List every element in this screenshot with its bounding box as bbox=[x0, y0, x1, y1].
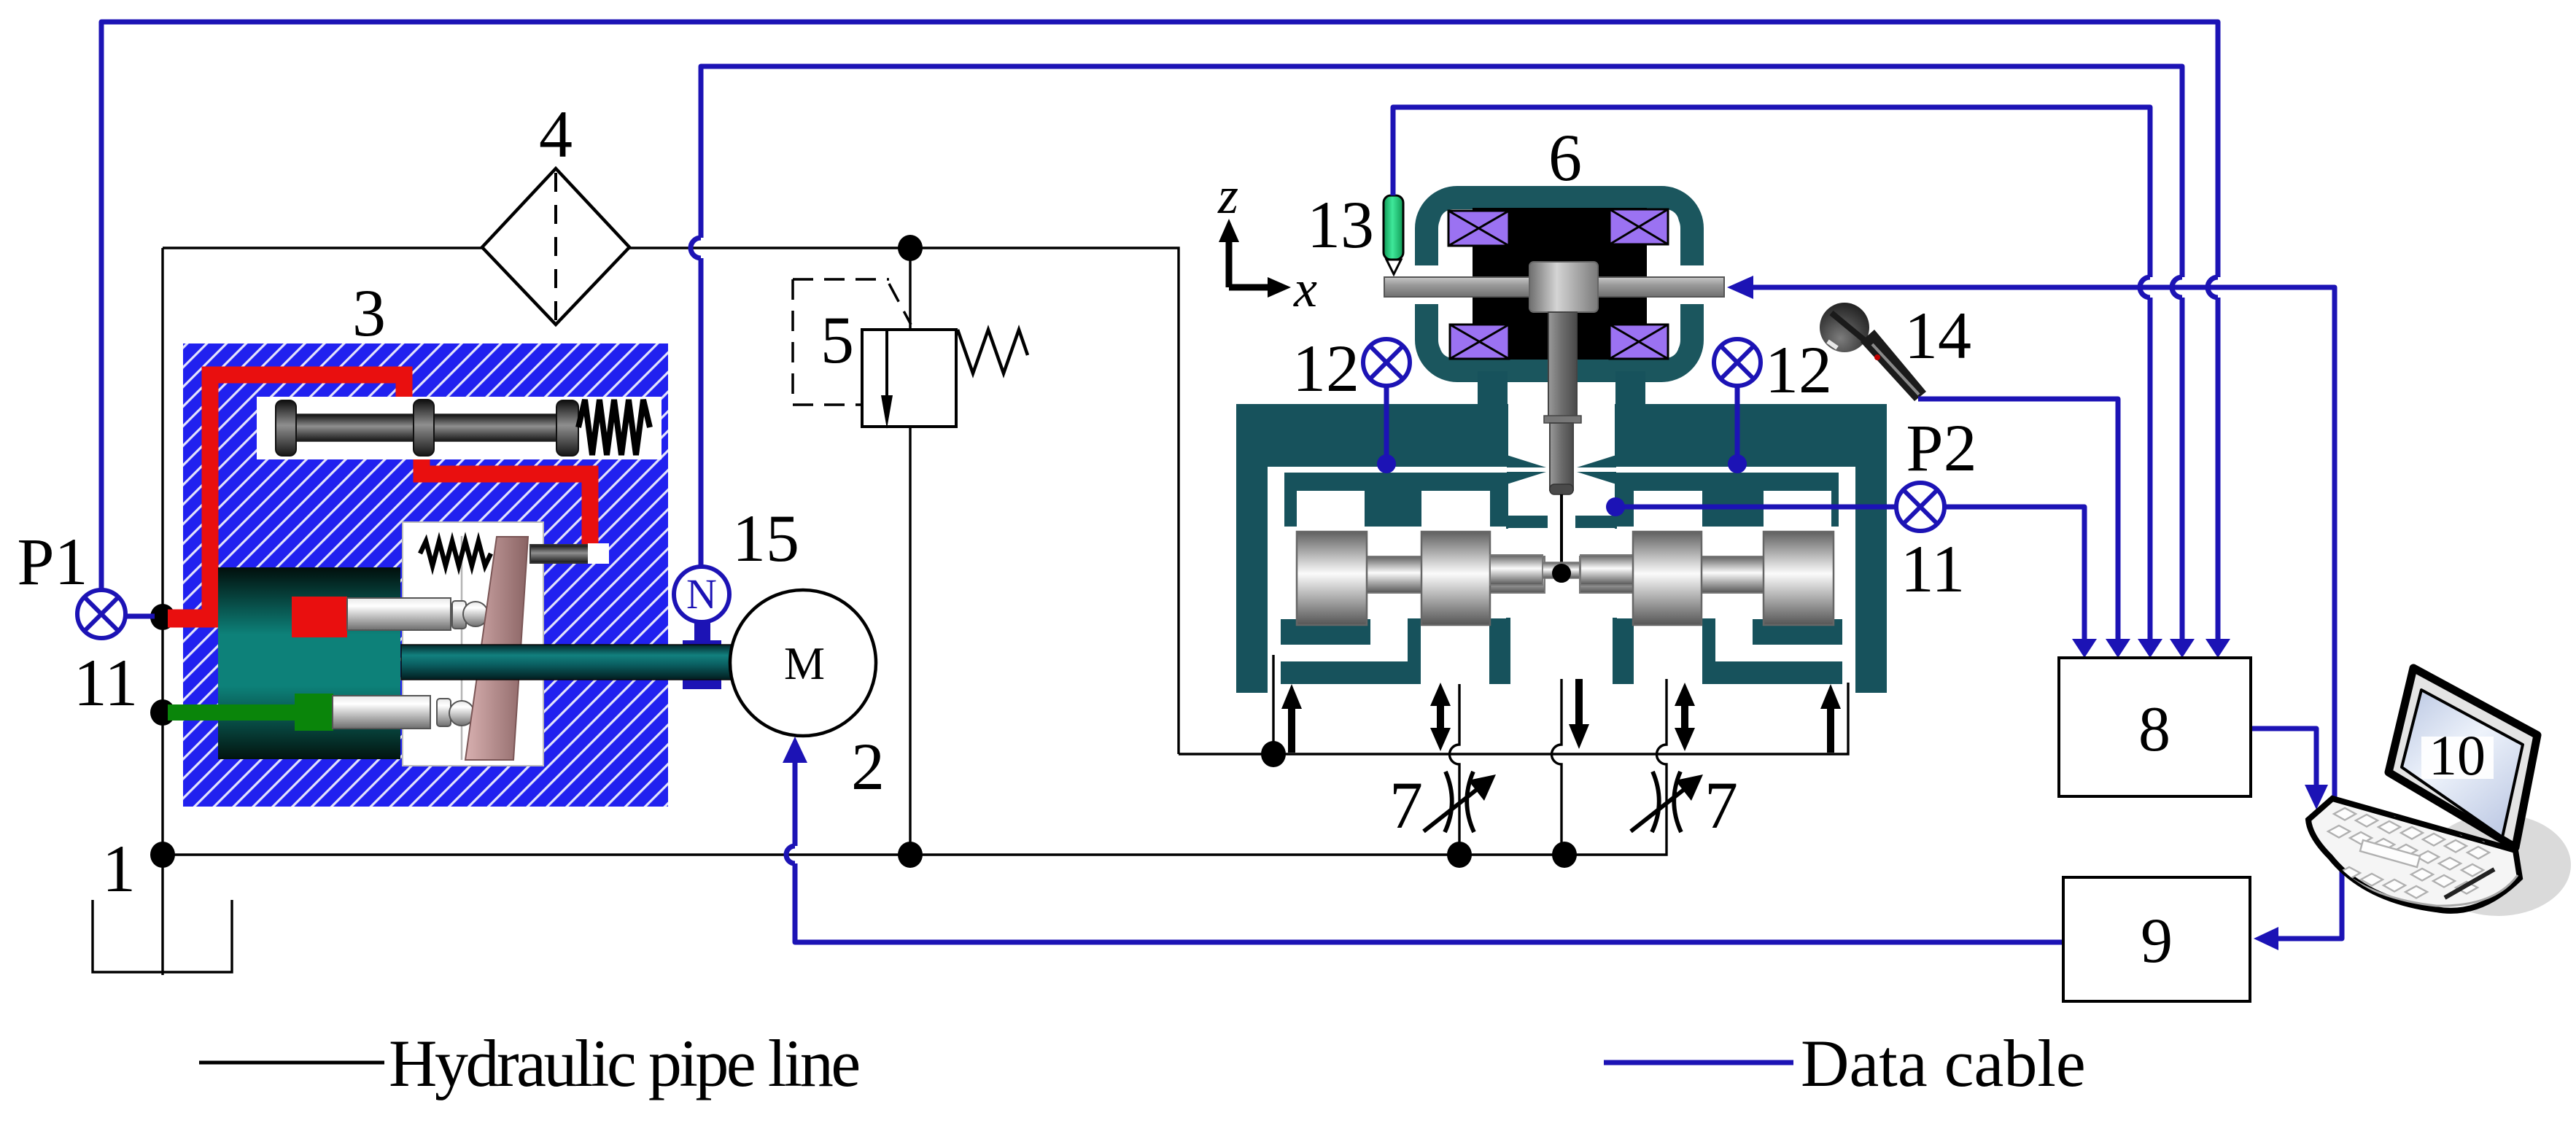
sensor gap line right bbox=[1616, 470, 1842, 537]
housing beak right lower bbox=[1577, 472, 1616, 484]
sensor P2 bbox=[1896, 483, 1944, 531]
housing right pad B bbox=[1715, 661, 1842, 684]
svg-text:z: z bbox=[1217, 166, 1238, 225]
coupling pedestal bbox=[694, 621, 710, 643]
laptop shadow bbox=[2425, 814, 2571, 916]
hop arc cable N bbox=[2172, 277, 2182, 298]
pump 3 control rod white end bbox=[588, 543, 609, 564]
housing left center step bbox=[1508, 516, 1548, 528]
node: relief branch top junction bbox=[898, 235, 923, 261]
valve 7 right arcs bbox=[1652, 772, 1681, 832]
housing beak left upper bbox=[1507, 455, 1546, 467]
pump 3 green piston block bbox=[295, 694, 333, 731]
pump 3 red rod balljoint bbox=[452, 601, 466, 629]
laptop keys bbox=[2328, 791, 2495, 898]
wire: valve7-left line with hop bbox=[1450, 684, 1459, 855]
svg-text:8: 8 bbox=[2138, 694, 2170, 765]
pump 3 swash plate bbox=[465, 537, 528, 760]
wire: relief valve branch upper bbox=[909, 248, 911, 330]
laptop lid bbox=[2389, 668, 2537, 847]
hop arc cable 13 bbox=[2140, 277, 2150, 298]
cable sensor12 left bbox=[1384, 386, 1389, 459]
svg-text:13: 13 bbox=[1307, 187, 1374, 262]
pump 3 red pipe lower bbox=[422, 459, 590, 551]
drive shaft bbox=[401, 645, 733, 680]
bearing coil top-left bbox=[1448, 211, 1509, 246]
wire: supply from pump vertical to filter bbox=[163, 246, 482, 249]
housing right outer bar bbox=[1855, 404, 1887, 693]
svg-text:7: 7 bbox=[1389, 768, 1423, 842]
cable P1 to box8 bbox=[101, 22, 2218, 639]
arrow into motor bbox=[783, 737, 807, 763]
svg-text:12: 12 bbox=[1292, 331, 1359, 405]
roller pocket right bbox=[1617, 527, 1855, 618]
spindle shaft narrow bbox=[1550, 423, 1573, 490]
sensor 12 right bbox=[1714, 339, 1761, 386]
housing beak left lower bbox=[1507, 472, 1546, 484]
housing pocket A left bbox=[1297, 491, 1365, 529]
hop arc cable N over pipe bbox=[691, 238, 701, 258]
housing pocket A right bbox=[1764, 491, 1831, 529]
pump 3 green rod balljoint bbox=[437, 699, 451, 726]
svg-text:P2: P2 bbox=[1906, 411, 1976, 485]
housing left outer bar bbox=[1236, 404, 1268, 693]
probe line bbox=[1560, 494, 1563, 573]
wire: bottom return line bbox=[163, 829, 1667, 855]
box 9 bbox=[2063, 877, 2250, 1001]
wire: relief valve branch lower bbox=[909, 427, 911, 855]
arrows into box 8 bbox=[2072, 639, 2097, 658]
pump 3 control rod bbox=[530, 545, 590, 563]
svg-text:3: 3 bbox=[352, 276, 386, 350]
node: pump pressure port junction bbox=[150, 604, 175, 630]
spindle shaft wide bbox=[1548, 312, 1577, 419]
housing right pad column outer bbox=[1613, 618, 1634, 684]
housing right connector bbox=[1615, 371, 1645, 415]
housing left connector bbox=[1478, 371, 1508, 415]
coupling collar bottom bbox=[683, 679, 721, 689]
laptop front skirt curve bbox=[2312, 837, 2518, 906]
svg-text:11: 11 bbox=[74, 645, 139, 720]
roller right 1 bbox=[1633, 532, 1702, 625]
pump 3 red pipe upper bbox=[210, 375, 404, 617]
bearing coil top-right bbox=[1610, 209, 1668, 244]
pump 3 green port pipe bbox=[168, 704, 295, 721]
housing left mid band bbox=[1281, 472, 1508, 529]
node: valve7-left bottom junction bbox=[1447, 842, 1472, 868]
valve 7 left arrow bbox=[1424, 785, 1482, 831]
relief valve 5 spring bbox=[958, 330, 1028, 373]
svg-text:10: 10 bbox=[2429, 723, 2486, 787]
filter 4 element dashed bbox=[554, 173, 557, 321]
svg-text:9: 9 bbox=[2141, 906, 2173, 976]
cable D laptop to shaft bbox=[1751, 287, 2335, 799]
pump 3 top piston rod 1 bbox=[292, 414, 417, 441]
head 6 hub bbox=[1529, 262, 1598, 312]
sensor 15 circle bbox=[674, 567, 729, 622]
roller right 2 bbox=[1764, 532, 1834, 625]
pump 3 top piston rod 2 bbox=[430, 414, 561, 441]
motor M circle bbox=[730, 590, 876, 736]
legend hydraulic line bbox=[199, 1061, 384, 1065]
center narrow left bbox=[1490, 555, 1543, 585]
head 6 frame ring bbox=[1427, 198, 1692, 370]
probe contact dot bbox=[1552, 564, 1571, 583]
roller shaft right bbox=[1580, 556, 1828, 593]
pump 3 top spring bbox=[578, 400, 650, 455]
pump 3 top cylinder white cavity bbox=[257, 397, 662, 459]
pump 3 top piston flange left bbox=[276, 400, 296, 456]
housing left pad column bbox=[1408, 618, 1421, 684]
housing left top band bbox=[1236, 404, 1508, 467]
roller shaft left bbox=[1297, 556, 1545, 593]
bearing coil bottom-left bbox=[1450, 325, 1509, 359]
housing right top band bbox=[1615, 404, 1887, 467]
cable 13 to box8 bbox=[1393, 107, 2150, 639]
mic 14 head bbox=[1820, 303, 1869, 352]
pump 3 top piston flange right bbox=[556, 400, 578, 456]
sensor 13 tip bbox=[1386, 260, 1401, 274]
arrow into shaft bbox=[1727, 276, 1753, 299]
pump 3 red piston rod bbox=[347, 598, 451, 630]
laptop body bbox=[2308, 799, 2520, 911]
laptop hinge slot bbox=[2445, 869, 2494, 898]
wire: valve7-right line with hop bbox=[1657, 679, 1667, 829]
pad slot right bbox=[1715, 645, 1845, 661]
sensor gap line left bbox=[1281, 470, 1508, 537]
node: pump suction port junction bbox=[150, 699, 175, 726]
cable box9 to motor bbox=[795, 757, 2063, 942]
sensor 12 left bbox=[1363, 339, 1410, 386]
blue arrowheads bbox=[783, 276, 2328, 950]
svg-text:5: 5 bbox=[820, 303, 854, 377]
legend data cable bbox=[1604, 1060, 1793, 1065]
spindle tip cap bbox=[1550, 484, 1573, 494]
spacebar bbox=[2360, 840, 2420, 867]
svg-text:12: 12 bbox=[1765, 333, 1832, 407]
svg-text:15: 15 bbox=[732, 501, 799, 575]
filter 4 body bbox=[482, 168, 629, 325]
cable P1 stub bbox=[125, 614, 155, 619]
arrow double (right pocket) bbox=[1675, 683, 1695, 751]
svg-text:Hydraulic pipe line: Hydraulic pipe line bbox=[389, 1026, 858, 1100]
head 6 inner white bbox=[1440, 209, 1679, 358]
roller left 2 bbox=[1421, 532, 1490, 625]
svg-text:6: 6 bbox=[1548, 120, 1582, 195]
housing right center step bbox=[1575, 516, 1615, 528]
node: relief branch bottom junction bbox=[898, 842, 923, 868]
node: collector left junction bbox=[1261, 741, 1286, 767]
roller pocket left bbox=[1268, 527, 1506, 618]
housing left pad B bbox=[1281, 661, 1408, 684]
pump 3 hatched block bbox=[183, 343, 668, 807]
pump 3 top piston flange mid bbox=[414, 400, 434, 456]
tank 1 bbox=[93, 900, 232, 972]
hop arc cable P1 bbox=[2208, 277, 2218, 298]
housing left pad column outer bbox=[1489, 618, 1510, 684]
head 6 shaft white cutouts bbox=[1404, 265, 1477, 304]
housing pocket B right bbox=[1634, 491, 1702, 529]
spindle collar bbox=[1544, 416, 1581, 423]
pump 3 cylinder block bbox=[218, 567, 400, 759]
relief valve 5 body bbox=[862, 330, 956, 427]
housing right mid band bbox=[1615, 472, 1842, 529]
valve 7 left arcs bbox=[1445, 772, 1474, 832]
laptop screen label 10 bbox=[2421, 737, 2494, 779]
arrow up (right pad supply) bbox=[1820, 684, 1841, 753]
cable P2 to box8 bbox=[1615, 507, 2084, 639]
cable sensor12 right bbox=[1735, 386, 1740, 459]
pump 3 control spring bbox=[420, 541, 491, 566]
housing pocket B left bbox=[1421, 491, 1490, 529]
center dot bbox=[1552, 564, 1571, 583]
cable box8 to laptop bbox=[2251, 729, 2316, 786]
sensor 13 body bbox=[1384, 195, 1403, 260]
mic 14 handle bbox=[1861, 330, 1926, 401]
relief valve 5 pilot dashed bbox=[793, 279, 911, 405]
pump 3 red piston block bbox=[292, 597, 347, 637]
svg-text:P1: P1 bbox=[17, 524, 88, 599]
relief valve 5 internal arrow bbox=[885, 330, 888, 397]
roller left 1 bbox=[1297, 532, 1367, 625]
housing beak right upper bbox=[1577, 455, 1616, 467]
head 6 shaft bbox=[1384, 277, 1724, 297]
svg-text:M: M bbox=[784, 638, 825, 689]
valve 7 right arrow bbox=[1631, 785, 1689, 831]
arrow into laptop bbox=[2305, 785, 2328, 809]
head 6 rotor bbox=[1473, 208, 1647, 360]
arrow double (left pocket) bbox=[1430, 683, 1451, 751]
svg-text:11: 11 bbox=[1901, 532, 1966, 606]
svg-text:x: x bbox=[1293, 260, 1317, 318]
pad slot left bbox=[1278, 645, 1408, 661]
arrow up (left pad supply) bbox=[1281, 684, 1302, 753]
sensor P1 bbox=[77, 590, 125, 638]
node: center channel bottom junction bbox=[1552, 842, 1577, 868]
svg-text:14: 14 bbox=[1904, 298, 1971, 373]
svg-text:7: 7 bbox=[1704, 768, 1738, 842]
pump 3 green piston rod bbox=[333, 696, 430, 729]
housing right pad A bbox=[1753, 619, 1842, 645]
housing pockets white bbox=[1268, 491, 1855, 661]
svg-text:N: N bbox=[686, 570, 717, 618]
wire: left suction/drain vertical bbox=[161, 248, 163, 975]
hop arc motor cable over return bbox=[786, 846, 795, 863]
wire: filter to rig supply corner bbox=[629, 248, 1179, 754]
pump 3 red port pipe bbox=[168, 610, 293, 628]
arrow down (center drain) bbox=[1569, 679, 1589, 749]
housing right pad column bbox=[1702, 618, 1715, 684]
arrow into box9 bbox=[2254, 927, 2278, 950]
wire: center channel line with hop bbox=[1552, 679, 1562, 855]
svg-text:1: 1 bbox=[102, 831, 136, 906]
cable N to box8 with hop over pipe bbox=[701, 66, 2182, 639]
node: tank line junction bbox=[150, 842, 175, 868]
svg-text:2: 2 bbox=[851, 729, 885, 804]
housing left pad A bbox=[1281, 619, 1370, 645]
bearing coil bottom-right bbox=[1610, 325, 1668, 359]
box 8 bbox=[2059, 658, 2251, 796]
cable laptop to box9 bbox=[2274, 861, 2342, 939]
svg-text:Data cable: Data cable bbox=[1801, 1026, 2086, 1100]
wire: pad line left outer bbox=[1272, 655, 1274, 754]
wire: collector line under rig bbox=[1179, 683, 1848, 754]
svg-text:4: 4 bbox=[539, 97, 573, 171]
cable junction dots blue bbox=[1377, 454, 1396, 473]
pump 3 swash cavity bbox=[403, 522, 543, 766]
cable mic to box8 bbox=[1918, 399, 2118, 639]
